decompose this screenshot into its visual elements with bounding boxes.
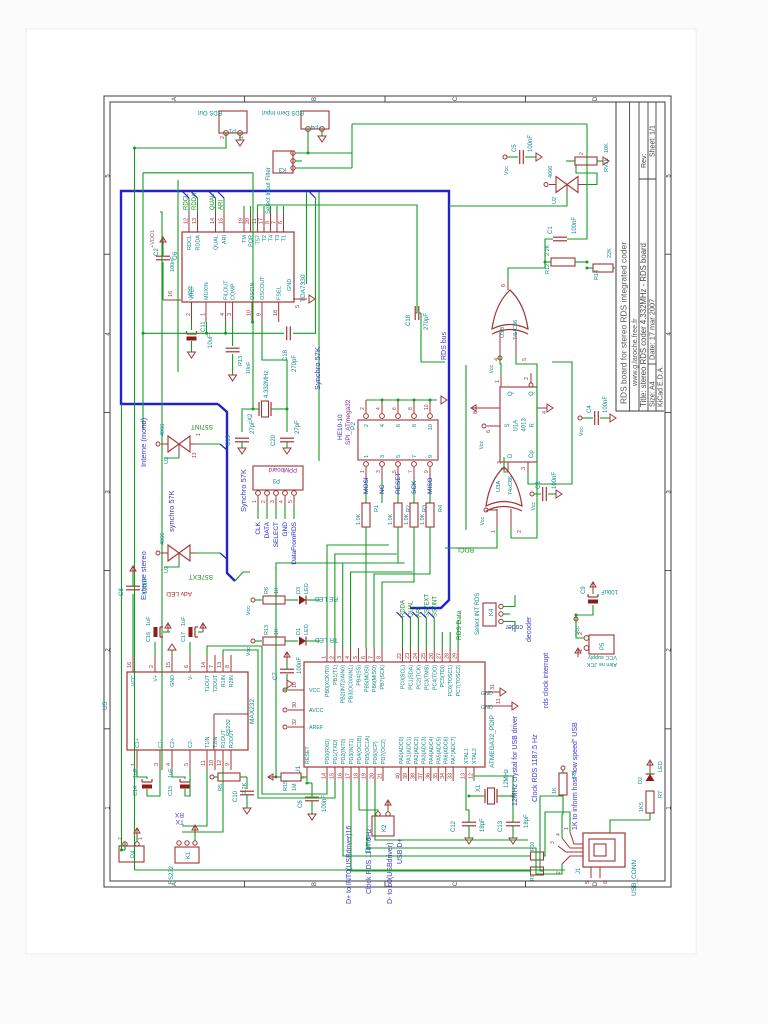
svg-text:PA0(ADC0): PA0(ADC0) <box>399 736 405 764</box>
svg-text:RESET: RESET <box>305 746 311 764</box>
capacitor C5 100nF <box>503 155 507 159</box>
svg-text:XTAL2: XTAL2 <box>472 748 478 764</box>
svg-text:RDS Out: RDS Out <box>198 109 222 115</box>
wire OSCIN stub <box>251 314 253 322</box>
svg-text:100nF: 100nF <box>322 795 328 812</box>
svg-text:5: 5 <box>184 763 190 766</box>
svg-text:T2OUT: T2OUT <box>213 674 219 692</box>
svg-text:2: 2 <box>186 313 192 316</box>
svg-text:Vcc: Vcc <box>480 517 486 526</box>
svg-text:R1IN: R1IN <box>221 675 227 687</box>
sheet frame inner <box>110 102 665 881</box>
wire U3B out to C1 R12 <box>508 239 553 280</box>
svg-text:PA7(ADC7): PA7(ADC7) <box>451 736 457 764</box>
svg-text:R13: R13 <box>238 356 244 366</box>
svg-text:1: 1 <box>564 827 570 830</box>
svg-text:15: 15 <box>219 218 225 224</box>
mcu reset pin <box>306 767 308 781</box>
labels MOSI NC RESET SCK MISO <box>365 480 367 503</box>
wire rail A <box>134 148 136 870</box>
svg-text:Select INT RDS: Select INT RDS <box>475 593 481 635</box>
U6 left pins <box>191 302 193 322</box>
svg-text:4: 4 <box>279 500 285 503</box>
svg-text:R5: R5 <box>218 784 224 791</box>
wire P1 pin2 <box>135 133 227 148</box>
svg-text:MOSI: MOSI <box>363 477 370 494</box>
svg-text:34: 34 <box>440 773 446 779</box>
svg-text:16: 16 <box>127 662 133 668</box>
svg-text:12MHz crystal for USB driver: 12MHz crystal for USB driver <box>512 715 519 806</box>
xor gate U3B 74HC86 <box>492 290 528 329</box>
wire R4 to mcu miso <box>374 527 430 648</box>
svg-text:100nF: 100nF <box>552 472 558 489</box>
capacitor C13b 18pF <box>506 825 520 827</box>
svg-text:OSCOUT: OSCOUT <box>260 276 266 300</box>
svg-text:10uF: 10uF <box>208 334 214 348</box>
wires max232 to K1 <box>180 770 207 828</box>
resistor R5 2.2K <box>218 773 240 781</box>
svg-text:Vcc: Vcc <box>579 427 585 436</box>
svg-text:PA2(ADC2): PA2(ADC2) <box>414 736 420 764</box>
svg-text:HE10-10: HE10-10 <box>337 414 344 440</box>
svg-text:NC: NC <box>379 484 386 494</box>
wire C1 to RV1 wiper <box>567 156 587 239</box>
connector K1 RS232 <box>175 847 199 863</box>
svg-text:PA4(ADC4): PA4(ADC4) <box>429 736 435 764</box>
svg-text:11: 11 <box>201 760 207 766</box>
frame row ticks <box>244 881 246 887</box>
svg-text:T1: T1 <box>282 235 288 241</box>
capacitor C10 <box>240 776 247 778</box>
svg-text:PA5(ADC5): PA5(ADC5) <box>436 736 442 764</box>
U6 VCC pin 16 <box>163 299 181 301</box>
svg-text:PC7(TOSC2): PC7(TOSC2) <box>456 665 462 697</box>
svg-text:T1OUT: T1OUT <box>205 674 211 692</box>
svg-text:4066: 4066 <box>160 533 166 545</box>
svg-text:6: 6 <box>501 284 507 287</box>
svg-text:28: 28 <box>445 653 451 659</box>
wire rail2 px143 <box>142 173 144 430</box>
svg-text:X2: X2 <box>248 413 254 421</box>
svg-text:PC0(SCL): PC0(SCL) <box>401 665 407 689</box>
svg-text:14: 14 <box>210 218 216 224</box>
wire OSCOUT to X2 <box>262 322 287 432</box>
wire D2 R7 to usb <box>649 813 651 820</box>
svg-text:RDS Data: RDS Data <box>456 610 463 640</box>
svg-text:AREF: AREF <box>309 725 324 731</box>
svg-text:8: 8 <box>408 407 414 410</box>
svg-text:C13: C13 <box>498 820 504 832</box>
max232 right pins <box>132 655 134 672</box>
svg-text:POR: POR <box>249 235 255 247</box>
svg-text:P5: P5 <box>600 642 606 650</box>
svg-text:T4: T4 <box>269 235 275 241</box>
svg-text:USB D+: USB D+ <box>397 839 404 864</box>
svg-text:32: 32 <box>292 719 298 725</box>
wire usb dplus route <box>358 787 540 874</box>
wire mcu pins 27 28 <box>441 632 443 648</box>
svg-text:USB_CONN: USB_CONN <box>631 860 638 896</box>
svg-text:C: C <box>453 881 459 886</box>
svg-text:MUXIN: MUXIN <box>204 282 210 300</box>
svg-text:CLK: CLK <box>255 521 262 534</box>
svg-text:D1: D1 <box>296 628 302 635</box>
capacitor C12 18pF <box>462 825 476 827</box>
svg-text:3: 3 <box>380 455 386 458</box>
svg-text:15: 15 <box>166 662 172 668</box>
svg-text:R14: R14 <box>594 270 600 280</box>
svg-text:J1: J1 <box>576 867 582 874</box>
trimmer RV1 10K <box>575 157 597 165</box>
wire oscin feed <box>252 173 254 409</box>
svg-text:+VDD1: +VDD1 <box>150 230 156 248</box>
svg-text:DATA: DATA <box>264 521 271 538</box>
svg-text:PD7(OC2): PD7(OC2) <box>381 739 387 764</box>
svg-text:37: 37 <box>418 773 424 779</box>
svg-text:6: 6 <box>278 221 284 224</box>
svg-text:AVCC: AVCC <box>309 708 323 714</box>
svg-text:PC3(TMS): PC3(TMS) <box>424 665 430 690</box>
svg-text:9: 9 <box>424 470 430 473</box>
svg-text:22: 22 <box>397 653 403 659</box>
svg-text:PB4(SS): PB4(SS) <box>356 665 362 686</box>
label RDS Data wire <box>457 620 459 648</box>
svg-text:Vcc: Vcc <box>479 441 485 450</box>
svg-text:10: 10 <box>428 424 434 430</box>
svg-text:9: 9 <box>428 455 434 458</box>
svg-text:PB5(MOSI): PB5(MOSI) <box>364 665 370 692</box>
svg-text:6: 6 <box>361 656 367 659</box>
svg-text:PD3(INT1): PD3(INT1) <box>349 738 355 764</box>
svg-text:4: 4 <box>166 763 172 766</box>
max232 left pins <box>136 750 138 770</box>
svg-text:Vcc: Vcc <box>504 166 510 175</box>
led RE LED circuit <box>251 598 255 602</box>
svg-text:11: 11 <box>496 698 502 704</box>
svg-text:36: 36 <box>425 773 431 779</box>
svg-text:14: 14 <box>201 662 207 668</box>
wire long rail 1 <box>135 869 566 871</box>
capacitor C9 100uF polarized <box>592 582 594 591</box>
svg-text:V-: V- <box>188 675 194 680</box>
svg-text:1: 1 <box>201 313 207 316</box>
capacitor C20 27pF <box>280 441 294 443</box>
svg-text:PD1(TXD): PD1(TXD) <box>333 739 339 764</box>
svg-text:4013: 4013 <box>522 417 528 431</box>
svg-text:ARI: ARI <box>222 235 228 245</box>
svg-text:ARI: ARI <box>416 607 422 617</box>
wire K2 to mcu <box>359 781 378 812</box>
svg-text:coder: coder <box>505 623 523 630</box>
svg-text:C2+: C2+ <box>170 738 176 748</box>
svg-text:R12: R12 <box>545 264 551 274</box>
wire rail C <box>177 180 179 372</box>
svg-text:GND: GND <box>170 675 176 687</box>
svg-text:PB2(INT2/AIN0): PB2(INT2/AIN0) <box>341 665 347 704</box>
wire usb routes to mcu <box>352 787 563 864</box>
wire K3 to C5 rail <box>351 124 353 168</box>
svg-text:RS232: RS232 <box>169 865 175 884</box>
capacitor C17 1uF <box>189 642 191 655</box>
svg-text:10K: 10K <box>604 143 610 153</box>
svg-text:1: 1 <box>131 763 137 766</box>
crystal X1 12MHz <box>484 789 486 803</box>
svg-text:1uF: 1uF <box>146 616 152 626</box>
svg-text:P4: P4 <box>310 123 318 129</box>
svg-text:V+: V+ <box>153 675 159 682</box>
svg-text:LED: LED <box>658 761 664 772</box>
svg-text:1: 1 <box>196 433 202 436</box>
svg-text:5: 5 <box>288 500 294 503</box>
capacitor C14 1uF polarized <box>137 770 147 779</box>
svg-text:35: 35 <box>433 773 439 779</box>
svg-text:1K to inform host "low speed": 1K to inform host "low speed" USB <box>572 722 579 830</box>
svg-text:C: C <box>453 96 459 101</box>
svg-text:GND: GND <box>481 691 493 697</box>
svg-text:PD0(RXD): PD0(RXD) <box>325 739 331 764</box>
svg-text:18pF: 18pF <box>480 818 486 832</box>
svg-text:10: 10 <box>209 760 215 766</box>
svg-text:9: 9 <box>257 313 263 316</box>
svg-text:GND: GND <box>287 279 293 291</box>
svg-text:1: 1 <box>491 530 497 533</box>
wire FF inputs <box>445 527 497 548</box>
svg-text:VCC: VCC <box>131 675 137 686</box>
svg-text:C18: C18 <box>406 314 412 326</box>
svg-text:Cp: Cp <box>529 450 535 458</box>
svg-text:rds clock interrupt: rds clock interrupt <box>543 653 550 708</box>
svg-text:R10: R10 <box>530 842 536 851</box>
mcu xtal pins <box>465 767 467 781</box>
svg-text:SCK: SCK <box>411 480 418 494</box>
mcu right pins PB0-PB7 <box>326 648 328 662</box>
mcu gnd pins <box>485 691 500 693</box>
svg-text:4066: 4066 <box>548 166 554 178</box>
svg-text:U2: U2 <box>552 197 558 204</box>
svg-text:PC1(SDA): PC1(SDA) <box>408 665 414 690</box>
wire U2C top to rail <box>540 184 544 186</box>
svg-text:P4: P4 <box>131 850 137 858</box>
svg-text:FSEL: FSEL <box>277 286 283 300</box>
svg-text:4: 4 <box>380 424 386 427</box>
svg-text:C14: C14 <box>133 786 139 796</box>
svg-text:10: 10 <box>424 404 430 410</box>
capacitor C18 270pF <box>286 326 288 340</box>
svg-text:1K: 1K <box>552 787 558 794</box>
wire R2 reset route <box>276 527 398 777</box>
capacitor C18 270pF <box>414 306 416 320</box>
svg-text:Vcc: Vcc <box>246 647 252 656</box>
svg-text:16: 16 <box>338 773 344 779</box>
svg-text:K2: K2 <box>382 824 388 832</box>
capacitor C11 10uF polarized <box>191 322 193 330</box>
svg-text:C20: C20 <box>271 434 277 446</box>
U6 GND pin 5 <box>293 298 307 300</box>
svg-text:C4: C4 <box>587 405 593 413</box>
svg-text:www.g.laroche.free.fr: www.g.laroche.free.fr <box>630 318 639 387</box>
wire P4 pin2 <box>307 129 309 152</box>
svg-text:7: 7 <box>209 665 215 668</box>
label S57INT <box>235 572 250 581</box>
mcu right pins PC0-PC7 <box>402 648 404 662</box>
svg-text:R9: R9 <box>530 874 536 881</box>
connector K2 TM In <box>372 816 394 836</box>
svg-text:C6: C6 <box>298 800 304 808</box>
svg-text:Vcc: Vcc <box>246 606 252 615</box>
svg-text:U3B: U3B <box>500 327 506 338</box>
crystal X2 4.332MHz <box>258 402 260 416</box>
svg-text:XTAL1: XTAL1 <box>464 748 470 764</box>
svg-text:RDDA: RDDA <box>401 600 407 617</box>
svg-text:1.0K: 1.0K <box>356 513 362 525</box>
ic ATMEGA32_PDIP body <box>304 662 485 767</box>
svg-text:3: 3 <box>154 763 160 766</box>
svg-text:RX: RX <box>174 811 184 818</box>
svg-text:Vcc: Vcc <box>531 502 537 511</box>
svg-text:27: 27 <box>437 653 443 659</box>
svg-text:D: D <box>593 96 599 101</box>
svg-text:1: 1 <box>322 656 328 659</box>
wire gates area long <box>465 365 467 530</box>
labels CLK DATA SELECT GND DataFromRDS <box>257 506 259 519</box>
svg-text:13: 13 <box>192 218 198 224</box>
svg-text:18: 18 <box>273 310 279 316</box>
U6 right pins <box>188 212 190 232</box>
svg-text:RDS Dem Input: RDS Dem Input <box>262 109 304 115</box>
wire net mcu int0 <box>343 781 530 856</box>
svg-text:1.0K: 1.0K <box>388 513 394 525</box>
svg-text:1.0K: 1.0K <box>404 513 410 525</box>
svg-text:2: 2 <box>149 665 155 668</box>
svg-text:LED: LED <box>304 583 310 594</box>
svg-text:C17: C17 <box>181 632 187 642</box>
wire MUXIN FILOUT net <box>206 322 208 333</box>
svg-text:RDS board for stereo RDS integ: RDS board for stereo RDS integrated code… <box>619 242 629 404</box>
svg-text:2: 2 <box>364 424 370 427</box>
svg-text:9: 9 <box>225 763 231 766</box>
svg-text:4066: 4066 <box>160 424 166 436</box>
svg-text:TX: TX <box>175 818 184 825</box>
svg-text:10: 10 <box>247 310 253 316</box>
svg-text:30: 30 <box>292 702 298 708</box>
svg-text:1uF: 1uF <box>168 768 174 778</box>
svg-text:PC2(TCK): PC2(TCK) <box>416 665 422 690</box>
svg-text:R15: R15 <box>283 781 289 791</box>
svg-text:18: 18 <box>354 773 360 779</box>
svg-text:100nF: 100nF <box>297 657 303 674</box>
wire U3A out to FF D <box>504 457 508 472</box>
svg-text:12MHz: 12MHz <box>504 769 510 788</box>
power +VDD1 and capacitor C2 100nF <box>162 262 164 300</box>
svg-text:27pF: 27pF <box>295 420 301 434</box>
svg-text:100nF: 100nF <box>603 396 609 413</box>
svg-text:8: 8 <box>225 665 231 668</box>
connector K3 Select Input Filter <box>273 151 293 173</box>
xor gate U3A 74xC86 <box>486 467 522 506</box>
svg-text:decoder: decoder <box>526 616 533 642</box>
svg-text:S: S <box>505 423 511 427</box>
svg-text:Select Input Filter: Select Input Filter <box>266 167 272 214</box>
svg-text:13: 13 <box>217 662 223 668</box>
svg-text:U3A: U3A <box>496 481 502 492</box>
svg-text:1.0K: 1.0K <box>420 513 426 525</box>
svg-text:33: 33 <box>448 773 454 779</box>
svg-text:2: 2 <box>517 530 523 533</box>
svg-text:C19: C19 <box>226 434 232 446</box>
wire RV1 top <box>566 160 575 162</box>
mcu top power pins <box>288 689 304 691</box>
capacitor C3 100nF <box>530 492 534 496</box>
svg-text:PA3(ADC3): PA3(ADC3) <box>421 736 427 764</box>
svg-text:RDDA: RDDA <box>196 235 202 251</box>
wire R3 to mcu sck <box>382 527 414 648</box>
svg-text:K4: K4 <box>489 608 495 616</box>
svg-text:1K: 1K <box>274 587 280 594</box>
wire net A <box>416 538 445 548</box>
svg-text:D: D <box>593 881 599 886</box>
svg-text:5: 5 <box>522 358 528 361</box>
svg-text:B: B <box>312 97 318 101</box>
svg-text:270pF: 270pF <box>424 313 430 330</box>
svg-text:PB3(OC0/AIN1): PB3(OC0/AIN1) <box>349 665 355 703</box>
svg-text:R1: R1 <box>374 505 380 512</box>
svg-text:C1-: C1- <box>158 739 164 748</box>
svg-text:PA6(ADC6): PA6(ADC6) <box>444 736 450 764</box>
wires max232 to mcu uart <box>207 646 327 794</box>
svg-text:RDS bus: RDS bus <box>441 331 448 360</box>
led D2 <box>646 774 655 781</box>
wire FF clock <box>528 362 572 484</box>
wire rail D <box>121 404 123 850</box>
connector P3 PPMboard <box>253 466 303 490</box>
capacitor C8 100nF <box>132 594 134 655</box>
svg-text:D+ to INT0(USBdriver)16: D+ to INT0(USBdriver)16 <box>346 826 353 904</box>
wires K4 <box>503 622 515 633</box>
svg-text:17: 17 <box>346 773 352 779</box>
svg-text:74xC86: 74xC86 <box>508 476 514 495</box>
svg-text:3: 3 <box>376 470 382 473</box>
svg-text:T57: T57 <box>256 235 262 244</box>
svg-text:GND: GND <box>282 522 289 537</box>
svg-text:10: 10 <box>292 682 298 688</box>
svg-text:100nF: 100nF <box>143 577 149 594</box>
svg-text:100nF: 100nF <box>528 135 534 152</box>
max232 gnd <box>171 650 173 655</box>
svg-text:1: 1 <box>360 470 366 473</box>
svg-text:17: 17 <box>259 218 265 224</box>
svg-text:8: 8 <box>265 221 271 224</box>
capacitor C16 1uF <box>154 642 156 655</box>
resistors R1-R4 1.0K <box>362 503 370 527</box>
svg-text:Interne (mond): Interne (mond) <box>139 417 148 467</box>
svg-text:38: 38 <box>410 773 416 779</box>
svg-text:22K: 22K <box>607 248 613 258</box>
svg-text:R6: R6 <box>264 587 270 594</box>
wire long rail 2 <box>283 148 469 860</box>
svg-text:PD4(OC1B): PD4(OC1B) <box>357 736 363 764</box>
svg-text:PD2(INT0): PD2(INT0) <box>341 738 347 764</box>
connector P2 HE10-10 SPI_ATmega32 <box>358 420 438 460</box>
switch U2C 4066 <box>556 177 567 193</box>
svg-text:PB0(XCK/T0): PB0(XCK/T0) <box>325 665 331 697</box>
svg-text:R13: R13 <box>264 625 270 635</box>
svg-text:4: 4 <box>556 833 562 836</box>
svg-text:PB1(T1): PB1(T1) <box>333 665 339 685</box>
svg-text:S57EXT: S57EXT <box>189 573 213 580</box>
svg-text:29: 29 <box>453 653 459 659</box>
svg-text:6: 6 <box>486 430 492 433</box>
svg-text:Size: A4: Size: A4 <box>650 381 657 407</box>
